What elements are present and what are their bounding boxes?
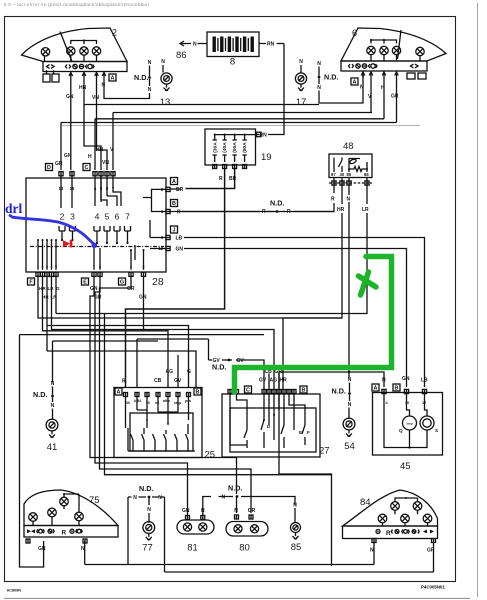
svg-text:AG: AG <box>166 369 174 375</box>
svg-text:VN: VN <box>102 160 109 166</box>
svg-text:G: G <box>120 279 124 285</box>
svg-text:GR: GR <box>248 508 256 514</box>
svg-text:6: 6 <box>352 28 357 38</box>
svg-text:N: N <box>317 85 321 91</box>
svg-text:N.D.: N.D. <box>33 390 47 399</box>
svg-text:GN: GN <box>38 546 46 552</box>
svg-text:N: N <box>147 507 151 513</box>
svg-text:(50A: (50A <box>232 142 238 153</box>
svg-text:LB: LB <box>421 378 428 384</box>
svg-text:GV: GV <box>237 358 245 364</box>
svg-text:2: 2 <box>130 265 132 269</box>
svg-text:GV: GV <box>259 378 267 384</box>
svg-text:N.D.: N.D. <box>332 387 346 396</box>
svg-text:A: A <box>353 79 357 85</box>
svg-text:N.D.: N.D. <box>212 363 226 372</box>
svg-text:E: E <box>299 430 302 435</box>
svg-text:5: 5 <box>55 265 57 269</box>
svg-text:77: 77 <box>142 543 153 554</box>
svg-text:N: N <box>317 61 321 67</box>
svg-text:81: 81 <box>187 543 198 554</box>
svg-text:drl: drl <box>5 201 23 216</box>
svg-text:N: N <box>161 59 165 65</box>
svg-text:R: R <box>331 197 335 203</box>
svg-text:6: 6 <box>115 212 120 222</box>
svg-text:30: 30 <box>340 172 345 177</box>
svg-text:45: 45 <box>400 461 411 472</box>
svg-text:12: 12 <box>159 246 164 251</box>
svg-text:R: R <box>386 530 391 537</box>
svg-text:A: A <box>172 179 176 185</box>
svg-text:Q: Q <box>399 428 403 433</box>
svg-text:(30A: (30A <box>212 142 218 153</box>
svg-text:F: F <box>307 430 310 435</box>
svg-text:2: 2 <box>112 28 117 38</box>
svg-text:R: R <box>122 379 126 385</box>
svg-text:N: N <box>133 495 137 501</box>
svg-text:LB: LB <box>176 236 183 242</box>
svg-text:AG: AG <box>270 378 278 384</box>
svg-text:7: 7 <box>93 265 95 269</box>
svg-text:86: 86 <box>176 50 187 61</box>
svg-text:N: N <box>222 495 226 501</box>
svg-text:GR: GR <box>391 94 399 100</box>
svg-text:3: 3 <box>46 265 48 269</box>
svg-text:A: A <box>374 385 378 391</box>
svg-text:4: 4 <box>51 265 53 269</box>
svg-text:27: 27 <box>319 446 330 457</box>
svg-text:BR: BR <box>176 187 184 193</box>
svg-text:P4C005N01: P4C005N01 <box>421 585 445 590</box>
svg-text:80: 80 <box>239 543 250 554</box>
svg-text:GN: GN <box>182 508 190 514</box>
svg-text:C: C <box>246 387 250 393</box>
svg-text:19: 19 <box>261 152 272 163</box>
svg-text:R: R <box>62 530 67 537</box>
svg-text:2: 2 <box>42 265 44 269</box>
svg-text:N: N <box>193 42 197 48</box>
svg-text:13: 13 <box>160 97 171 108</box>
svg-text:N: N <box>348 377 352 383</box>
svg-text:N: N <box>293 503 297 509</box>
svg-text:75: 75 <box>89 495 100 506</box>
svg-text:87: 87 <box>331 172 336 177</box>
svg-text:N: N <box>347 197 351 203</box>
svg-text:(80A: (80A <box>242 142 248 153</box>
svg-text:N: N <box>299 59 303 65</box>
svg-text:S: S <box>435 428 438 433</box>
svg-text:GN: GN <box>402 376 410 382</box>
svg-text:D: D <box>47 165 51 171</box>
svg-text:2: 2 <box>60 212 65 222</box>
svg-text:G: G <box>187 369 191 375</box>
svg-text:R: R <box>177 210 181 216</box>
svg-text:A: A <box>117 389 121 395</box>
svg-text:GN: GN <box>64 153 72 159</box>
svg-text:7: 7 <box>125 212 130 222</box>
svg-text:6C809N: 6C809N <box>7 589 21 593</box>
svg-text:N: N <box>51 381 55 387</box>
svg-text:B: B <box>172 201 176 207</box>
svg-text:85: 85 <box>347 172 352 177</box>
svg-text:41: 41 <box>47 442 58 453</box>
svg-text:N.D.: N.D. <box>324 73 338 82</box>
svg-text:H: H <box>88 154 92 160</box>
svg-text:3: 3 <box>70 212 75 222</box>
svg-text:N.D.: N.D. <box>139 484 153 493</box>
svg-text:N: N <box>148 60 152 66</box>
svg-text:N: N <box>148 87 152 93</box>
svg-text:J: J <box>173 227 176 233</box>
svg-text:A: A <box>111 75 115 81</box>
svg-text:30: 30 <box>126 401 130 405</box>
svg-text:stop: stop <box>406 422 413 426</box>
svg-text:N: N <box>158 495 162 501</box>
svg-text:N: N <box>382 378 386 384</box>
svg-text:VN: VN <box>92 95 99 101</box>
svg-text:84: 84 <box>360 497 371 508</box>
svg-text:E: E <box>83 279 87 285</box>
svg-text:B: B <box>302 387 306 393</box>
svg-text:CB: CB <box>154 378 162 384</box>
svg-text:R: R <box>287 209 291 215</box>
svg-text:17: 17 <box>296 97 307 108</box>
svg-text:85: 85 <box>291 542 302 553</box>
svg-text:4: 4 <box>95 212 100 222</box>
svg-text:25: 25 <box>205 450 216 461</box>
svg-text:GN: GN <box>176 247 184 253</box>
svg-text:N.D.: N.D. <box>134 73 148 82</box>
svg-text:N: N <box>51 403 55 409</box>
svg-text:86: 86 <box>364 172 369 177</box>
svg-text:N.D.: N.D. <box>270 199 284 208</box>
svg-text:R: R <box>219 176 223 182</box>
svg-text:N: N <box>348 402 352 408</box>
svg-text:HR: HR <box>337 207 345 213</box>
svg-text:GN: GN <box>66 94 74 100</box>
svg-text:8: 8 <box>99 265 101 269</box>
svg-text:GR: GR <box>55 161 63 167</box>
svg-text:HR: HR <box>280 378 288 384</box>
svg-text:(40A: (40A <box>222 142 228 153</box>
svg-text:HN: HN <box>79 85 87 91</box>
svg-text:6 0 – l uci e s t e r n e (p: 6 0 – l uci e s t e r n e (posiz./anabba… <box>4 2 149 7</box>
svg-text:1: 1 <box>37 265 39 269</box>
svg-text:48: 48 <box>343 141 354 152</box>
svg-text:8: 8 <box>230 57 235 68</box>
svg-text:B: B <box>395 385 399 391</box>
svg-text:C: C <box>85 165 89 171</box>
svg-text:54: 54 <box>344 441 355 452</box>
svg-text:8: 8 <box>143 265 145 269</box>
svg-text:R: R <box>262 209 266 215</box>
svg-text:RN: RN <box>267 42 275 48</box>
svg-text:N: N <box>360 85 364 91</box>
svg-text:5: 5 <box>105 212 110 222</box>
svg-text:LR: LR <box>362 207 369 213</box>
svg-text:aff/s: aff/s <box>163 399 170 403</box>
svg-text:BR: BR <box>229 176 237 182</box>
svg-text:N.D.: N.D. <box>228 484 242 493</box>
svg-text:N: N <box>234 508 238 514</box>
svg-text:28: 28 <box>152 276 164 288</box>
svg-text:B: B <box>196 389 200 395</box>
svg-text:HN: HN <box>96 147 104 153</box>
